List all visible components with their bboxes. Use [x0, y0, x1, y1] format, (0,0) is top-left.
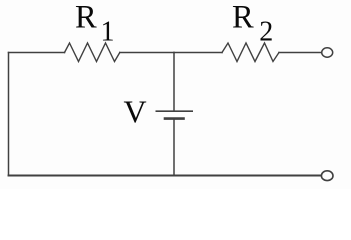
wire bottom horizontal — [9, 175, 322, 177]
resistor R1 — [65, 43, 120, 62]
battery V plate short — [165, 117, 184, 120]
svg-text:R: R — [232, 0, 254, 36]
label R1 — [75, 0, 115, 48]
wire top-left horizontal — [9, 52, 65, 54]
terminal top-right — [322, 48, 333, 57]
svg-text:R: R — [75, 0, 97, 36]
svg-text:V: V — [124, 94, 147, 130]
wire node to R2 — [174, 52, 222, 54]
wire R1 to node — [120, 52, 174, 54]
wire R2 to top terminal — [279, 52, 321, 54]
svg-text:2: 2 — [259, 17, 273, 48]
terminal bottom-right — [321, 171, 333, 181]
wire left vertical — [8, 53, 10, 176]
wire battery to bottom — [173, 119, 175, 176]
resistor R2 — [222, 43, 279, 62]
wire node to battery — [173, 53, 175, 112]
label R2 — [232, 0, 273, 48]
battery V plate long — [156, 110, 192, 112]
svg-text:1: 1 — [101, 17, 115, 48]
